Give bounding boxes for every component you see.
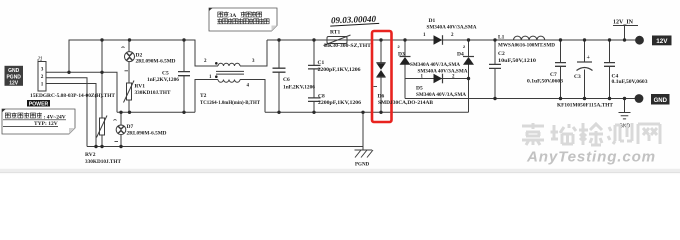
svg-text:RV1: RV1 <box>135 84 146 90</box>
terminal 12V <box>636 36 644 44</box>
transformer T2 <box>215 62 244 82</box>
net label box GND PGND 12V <box>5 66 24 87</box>
svg-text:D2: D2 <box>136 53 143 59</box>
svg-text:15EDGRC-5.08-03P-14-00Z(H).THT: 15EDGRC-5.08-03P-14-00Z(H).THT <box>30 94 116 99</box>
svg-text:1: 1 <box>423 33 426 38</box>
wire GND output rail <box>405 98 636 100</box>
svg-text:MWSA0616-100MT.SMD: MWSA0616-100MT.SMD <box>498 44 555 49</box>
svg-text:2: 2 <box>204 59 207 64</box>
wire D2 RV1 column <box>128 40 130 112</box>
wire rail B diode row <box>405 78 469 80</box>
svg-text:RT1: RT1 <box>330 30 340 36</box>
svg-text:KF101M050F115A,THT: KF101M050F115A,THT <box>557 104 614 109</box>
svg-text:GND: GND <box>654 98 668 104</box>
wire D4 column <box>468 40 470 112</box>
svg-text:C1: C1 <box>318 60 325 66</box>
svg-text:3: 3 <box>252 59 255 64</box>
wire top rail right segment <box>267 39 637 41</box>
svg-text:1: 1 <box>41 82 44 88</box>
varistor RV2 <box>97 116 108 138</box>
note box power input range <box>2 109 75 134</box>
svg-text:: 4V~24V: : 4V~24V <box>44 114 66 120</box>
wire C3 column <box>584 40 586 99</box>
svg-text:SM340A 40V/3A,SMA: SM340A 40V/3A,SMA <box>410 63 460 68</box>
diode D4 <box>463 57 474 65</box>
svg-text:+: + <box>587 55 591 61</box>
net label box 12V <box>652 36 672 46</box>
ground symbol GND <box>619 113 631 119</box>
svg-text:T2: T2 <box>200 93 207 99</box>
wire C7 column <box>560 40 562 99</box>
svg-text:C3: C3 <box>574 74 581 80</box>
note box choke selection <box>209 8 277 31</box>
svg-text:12V: 12V <box>9 81 19 87</box>
svg-text:D6: D6 <box>378 94 385 100</box>
wire mid-left rail <box>117 111 195 113</box>
diode D3 <box>400 57 411 65</box>
svg-text:2: 2 <box>398 44 401 49</box>
svg-text:C5: C5 <box>162 71 169 77</box>
svg-text:POWER: POWER <box>29 101 49 107</box>
svg-text:C4: C4 <box>612 74 619 80</box>
wire C4 column <box>609 40 611 99</box>
svg-text:1nF,2KV,1206: 1nF,2KV,1206 <box>283 86 316 91</box>
wire C2 column <box>494 40 496 99</box>
svg-text:L1: L1 <box>498 35 505 41</box>
fuse RT1 <box>324 35 351 46</box>
svg-text:12V_IN: 12V_IN <box>613 20 634 26</box>
svg-text:330KD10J.THT: 330KD10J.THT <box>135 91 172 96</box>
svg-text:PGND: PGND <box>6 74 21 80</box>
inductor L1 <box>514 36 545 40</box>
watermark <box>522 123 660 145</box>
gas discharge tube D7 <box>114 112 126 146</box>
svg-text:TC1264-1.0mH(min)-B,THT: TC1264-1.0mH(min)-B,THT <box>200 101 261 106</box>
wire C1 C8 column <box>313 40 315 112</box>
svg-text:2: 2 <box>463 44 466 49</box>
svg-text:2: 2 <box>41 74 44 80</box>
svg-text:2RL090M-6.5MD: 2RL090M-6.5MD <box>136 60 176 65</box>
svg-text:C7: C7 <box>550 72 557 78</box>
capacitor C8 <box>308 98 321 102</box>
svg-text:D4: D4 <box>457 52 464 58</box>
svg-text:3A: 3A <box>230 13 237 19</box>
wire D3 column <box>404 40 406 99</box>
svg-text:GND: GND <box>8 68 20 74</box>
wire J1 pin1 down <box>52 84 96 147</box>
wire D6 column <box>380 40 382 112</box>
svg-text:D5: D5 <box>416 86 423 92</box>
svg-text:AnyTesting.com: AnyTesting.com <box>526 150 656 166</box>
svg-text:1nF,2KV,1206: 1nF,2KV,1206 <box>147 78 180 83</box>
svg-text:C8: C8 <box>318 94 325 100</box>
svg-text:RV2: RV2 <box>85 152 96 158</box>
red highlight box <box>372 31 392 122</box>
wire transformer pin4 drop <box>240 80 265 113</box>
wire mid-right rail PGND <box>265 111 469 113</box>
svg-text:D3: D3 <box>398 52 405 58</box>
connector J1 <box>30 57 116 100</box>
terminal GND <box>635 95 643 103</box>
wire transformer pin1 riser <box>195 80 218 113</box>
svg-text:2200pF,1KV,1206: 2200pF,1KV,1206 <box>318 68 362 73</box>
capacitor C5 <box>178 72 190 76</box>
svg-text:4: 4 <box>247 84 250 89</box>
diode D5 <box>434 74 443 84</box>
svg-text:C2: C2 <box>498 51 505 57</box>
wire C5 column <box>183 40 185 112</box>
svg-text:SM340A 40V/3A,SMA: SM340A 40V/3A,SMA <box>416 93 466 98</box>
wire RV2 column <box>101 40 103 147</box>
wire transformer pin3 riser <box>240 40 267 66</box>
svg-text:D7: D7 <box>127 124 134 130</box>
electrolytic capacitor C3 <box>577 62 593 71</box>
wire GND stub <box>624 99 626 113</box>
svg-text:10uF,50V,1210: 10uF,50V,1210 <box>498 59 537 64</box>
wire C6 column <box>278 40 280 112</box>
svg-text:SMDJ30CA,DO-214AB: SMDJ30CA,DO-214AB <box>378 101 434 106</box>
capacitor C2 <box>489 64 501 68</box>
net label box POWER <box>27 100 50 107</box>
wire bottom rail <box>87 146 363 148</box>
gas discharge tube D2 <box>122 47 135 71</box>
svg-text:12V: 12V <box>656 38 668 45</box>
svg-text:J1: J1 <box>36 57 43 63</box>
capacitor C7 <box>555 63 566 67</box>
svg-text:PGND: PGND <box>355 163 370 168</box>
chassis ground PGND <box>355 150 374 158</box>
svg-text:SM340A 40V/3A,SMA: SM340A 40V/3A,SMA <box>418 69 468 74</box>
svg-text:SM340A 40V/3A,SMA: SM340A 40V/3A,SMA <box>427 26 477 31</box>
svg-text:2200pF,1KV,1206: 2200pF,1KV,1206 <box>318 101 362 106</box>
svg-text:BK30-300-SZ,THT: BK30-300-SZ,THT <box>324 43 371 49</box>
net label box GND <box>651 94 670 105</box>
svg-text:D1: D1 <box>429 18 436 24</box>
svg-text:C6: C6 <box>283 77 290 83</box>
wire top-left rail loop <box>69 40 218 72</box>
svg-text:0.1uF,50V,0603: 0.1uF,50V,0603 <box>527 80 564 85</box>
svg-text:2: 2 <box>451 33 454 38</box>
varistor RV1 <box>124 81 135 103</box>
capacitor C1 <box>308 65 321 69</box>
capacitor C6 <box>273 68 286 72</box>
capacitor C4 <box>604 63 615 67</box>
svg-text:2RL090M-6.5MD: 2RL090M-6.5MD <box>127 132 167 137</box>
diode D1 <box>434 35 443 45</box>
wire J1 pin2 down <box>52 78 87 147</box>
wire J1 pin3 to mid rail <box>52 72 117 112</box>
svg-text:330KD10J.THT: 330KD10J.THT <box>85 160 122 165</box>
svg-text:3: 3 <box>41 67 44 73</box>
handwritten title 09.03.00040 <box>330 14 379 27</box>
wire 12V_IN stub <box>613 26 638 41</box>
photo edge <box>0 169 680 173</box>
TVS diode D6 <box>374 63 386 87</box>
wire PGND drop <box>362 112 364 150</box>
svg-text:0.1uF,50V,0603: 0.1uF,50V,0603 <box>612 80 649 85</box>
